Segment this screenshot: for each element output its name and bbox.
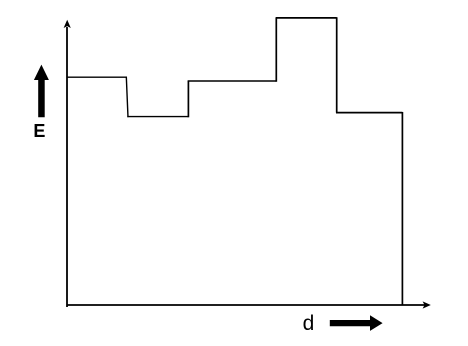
wire: drop 1: [126, 77, 128, 118]
wire: plateau 3: [188, 80, 277, 82]
svg-text:d: d: [303, 312, 315, 335]
y-axis E: [64, 20, 71, 307]
wire: plateau 1: [67, 76, 127, 78]
wire: drop 2: [336, 17, 338, 112]
wire: rise 1: [187, 81, 189, 118]
wire: plateau 2 (low): [127, 116, 188, 118]
wire: final drop to axis: [401, 112, 403, 305]
svg-text:E: E: [33, 121, 45, 141]
wire: plateau 5: [336, 112, 402, 114]
step curve: E vs d piecewise-constant field plot: [67, 17, 403, 305]
thick up arrow (E direction): [34, 65, 49, 118]
wire: plateau 4 (top): [276, 17, 337, 19]
x-axis d: [67, 301, 431, 308]
wire: rise 2 (tall): [275, 18, 277, 82]
thick right arrow (d direction): [330, 315, 383, 331]
